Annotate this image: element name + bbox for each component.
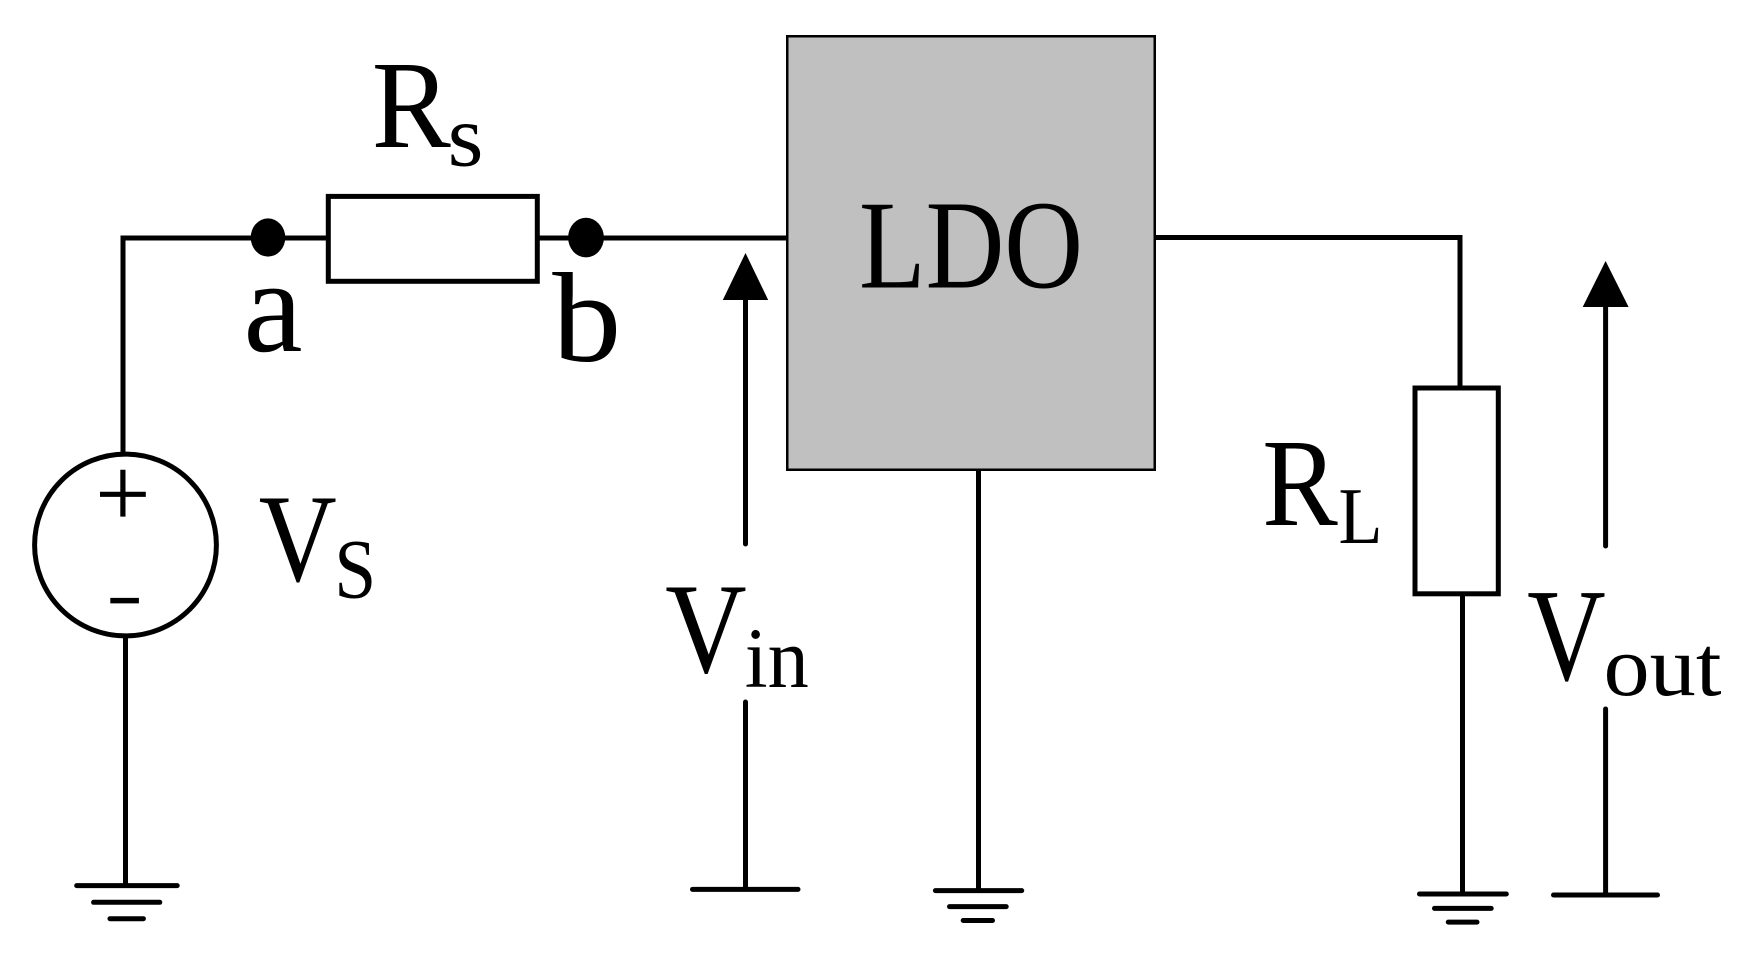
- V_in arrow shaft upper: [743, 299, 748, 544]
- svg-text:LDO: LDO: [859, 177, 1083, 316]
- svg-text:R: R: [372, 37, 452, 175]
- ground (source): [77, 886, 178, 919]
- voltage source minus sign: [110, 598, 139, 604]
- svg-text:a: a: [244, 232, 303, 380]
- V_in reference bar: [693, 887, 799, 892]
- wire: source bottom to ground: [123, 634, 128, 886]
- svg-text:R: R: [1262, 415, 1338, 553]
- wire: LDO bottom to ground: [976, 470, 981, 891]
- V_out arrow shaft upper: [1603, 306, 1608, 546]
- wire: R_L bottom to ground: [1460, 594, 1465, 894]
- svg-text:V: V: [259, 471, 337, 609]
- svg-text:S: S: [334, 523, 376, 617]
- node b (junction dot): [568, 218, 604, 258]
- ground (LDO): [935, 891, 1021, 921]
- wire: LDO output horizontal + corner down to R_L: [1156, 238, 1460, 390]
- svg-text:V: V: [1527, 562, 1606, 709]
- voltage source plus sign: [100, 470, 146, 517]
- V_out arrow head: [1583, 261, 1629, 307]
- V_out reference bar: [1554, 893, 1658, 898]
- svg-text:V: V: [665, 557, 747, 700]
- voltage source V_S circle: [35, 454, 217, 636]
- svg-text:in: in: [745, 610, 809, 706]
- wire: source top-left L (vertical + horizontal to LDO input): [123, 238, 786, 456]
- svg-text:b: b: [552, 247, 621, 389]
- svg-text:out: out: [1604, 618, 1722, 714]
- svg-text:L: L: [1339, 471, 1383, 561]
- svg-text:s: s: [448, 89, 484, 186]
- node a (junction dot): [251, 218, 286, 256]
- V_in arrow head: [723, 253, 768, 300]
- V_out arrow shaft lower: [1603, 709, 1608, 895]
- resistor R_L body: [1415, 388, 1498, 594]
- resistor R_s body: [328, 196, 537, 281]
- ground (R_L): [1420, 894, 1507, 922]
- V_in arrow shaft lower: [743, 702, 748, 889]
- LDO block U1: [787, 36, 1155, 470]
